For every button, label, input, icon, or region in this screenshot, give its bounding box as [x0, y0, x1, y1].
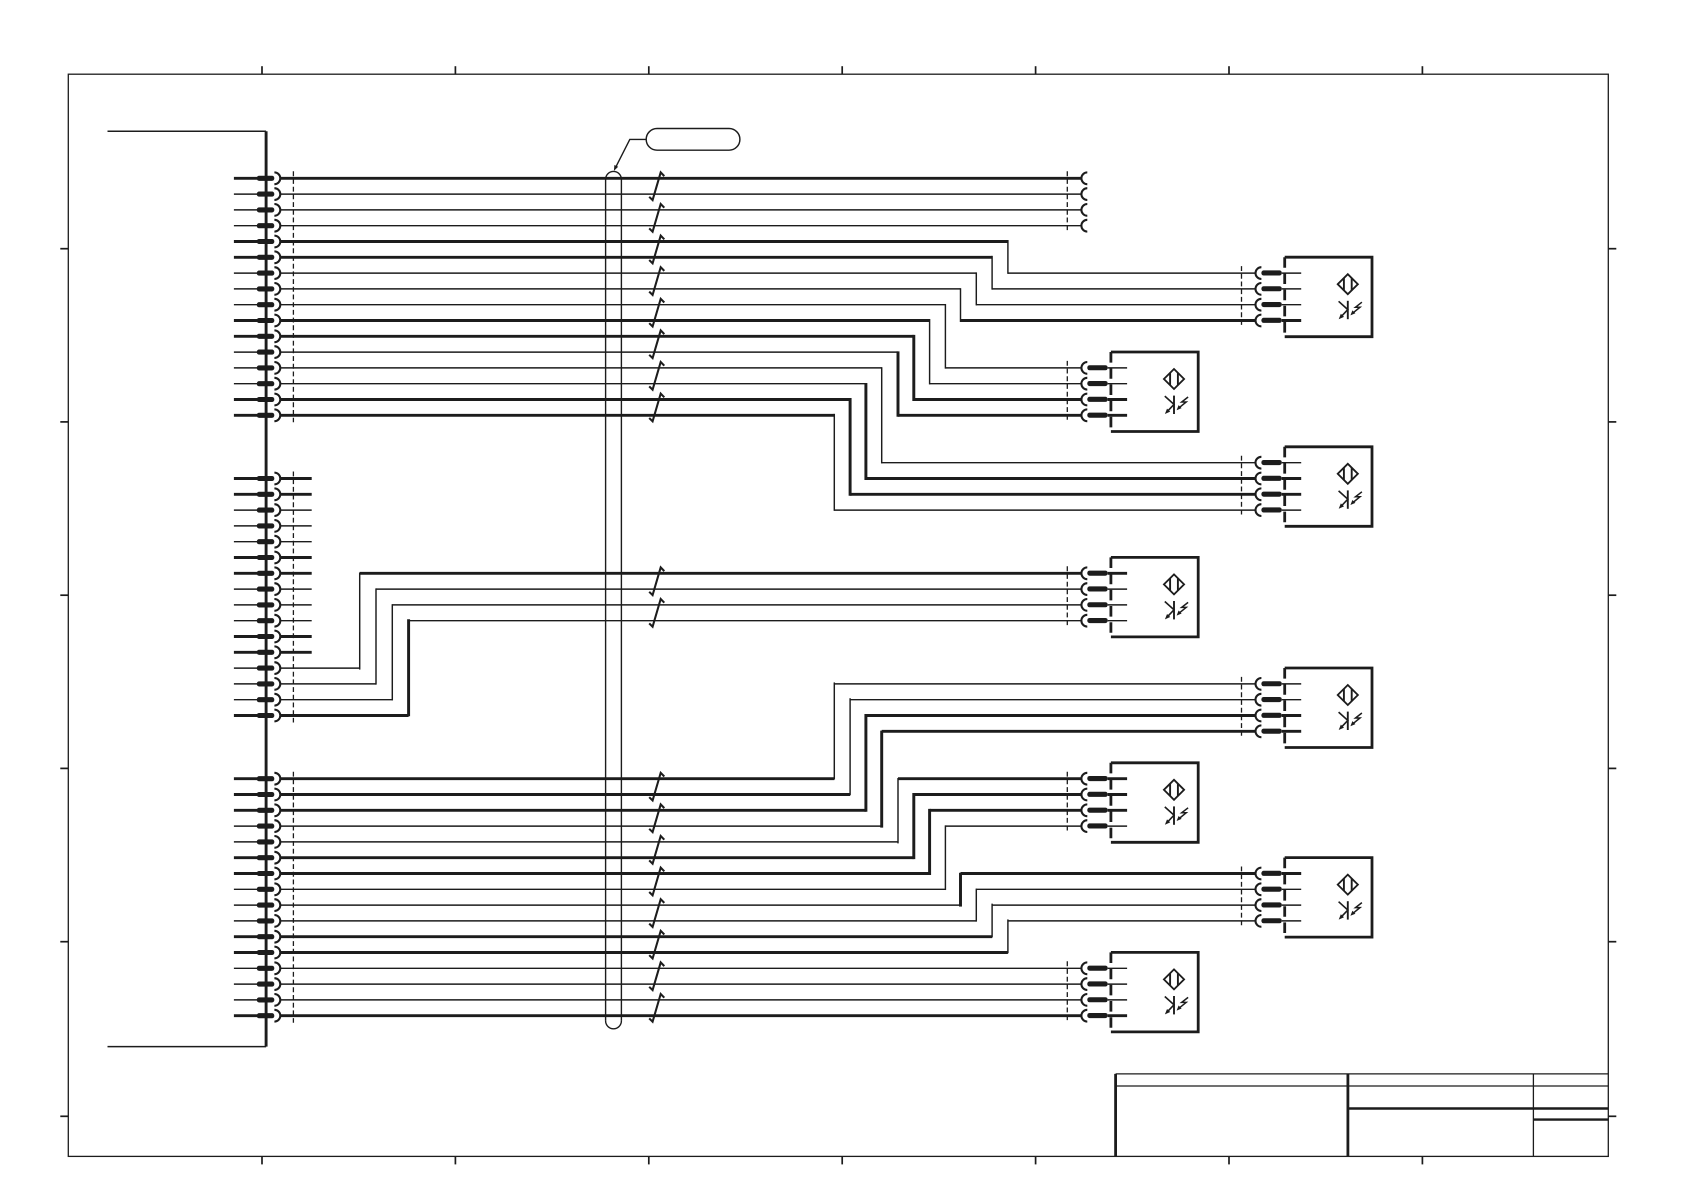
spare wire stub, pin X1.20 (not connected): [280, 525, 311, 527]
sensor B2 terminal 3 (socket, pad, lead): [1081, 394, 1127, 406]
sensor B5 terminal 3 (socket, pad, lead): [1256, 710, 1302, 722]
sensor B3 dashed wire-crossing line: [1241, 456, 1243, 517]
sensor B2 photoelectric proximity symbol (diamond): [1164, 369, 1184, 389]
sensor B7 enclosure box: [1285, 858, 1372, 938]
sensor B5 enclosure box: [1285, 668, 1372, 748]
pin X1.9: [234, 299, 280, 311]
sensor B3 enclosure box: [1285, 447, 1372, 527]
pin X1.4: [234, 220, 280, 232]
sensor B4 receiver / reflected light-beam symbol: [1165, 601, 1188, 619]
spare wire stub, pin X1.18 (not connected): [280, 493, 311, 496]
dashed wire-crossing line at open cores: [1066, 171, 1068, 232]
sensor B6 receiver / reflected light-beam symbol: [1165, 806, 1188, 824]
wire, pin X1 row to sensor B2 terminal 4: [280, 351, 1081, 416]
sensor B8 terminal 3 (socket, pad, lead): [1081, 994, 1127, 1006]
sensor B3 terminal 1 (socket, pad, lead): [1256, 457, 1302, 469]
wire, pin X1 row to sensor B6 terminal 4: [280, 825, 1081, 890]
sensor B7 terminal 3 (socket, pad, lead): [1256, 899, 1302, 911]
spare wire stub, pin X1.22 (not connected): [280, 556, 311, 559]
pin X1.41: [234, 899, 280, 911]
wire, pin X1 row to sensor B1 terminal 4: [280, 288, 1255, 322]
wire, pin X1 row to sensor B2 terminal 2: [280, 319, 1081, 384]
wire, pin X1 row to sensor B7 terminal 1: [280, 873, 1255, 907]
cable core-count slash (2 conductors), rows 43-44: [649, 836, 664, 864]
wire, pin X1 row to sensor B3 terminal 4: [280, 414, 1255, 511]
wire, pin X1.2 to open cable core 2: [280, 193, 1081, 195]
pin X1.40: [234, 883, 280, 895]
sensor B1 terminal 2 (socket, pad, lead): [1256, 283, 1302, 295]
sensor B7 photoelectric proximity symbol (diamond): [1338, 875, 1358, 895]
sensor B2 terminal 1 (socket, pad, lead): [1081, 362, 1127, 374]
pin X1.23: [234, 567, 280, 579]
cable core-count slash (2 conductors), rows 11-12: [649, 330, 664, 358]
cable core-count slash (2 conductors), rows 3-4: [649, 204, 664, 232]
wire, pin X1 row to sensor B4 terminal 1: [280, 573, 1081, 670]
wire, pin X1 row to sensor B4 terminal 3: [280, 604, 1081, 700]
pin X1.7: [234, 267, 280, 279]
sensor B6 terminal 4 (socket, pad, lead): [1081, 820, 1127, 832]
cable W1 trunk (drawn as flattened loop): [606, 171, 622, 1028]
open connector sockets of unterminated cores (rows 1-4): [1081, 172, 1087, 231]
sensor B1 terminal 4 (socket, pad, lead): [1256, 315, 1302, 327]
pin X1.27: [234, 631, 280, 643]
pin X1.15: [234, 394, 280, 406]
spare wire stub, pin X1.17 (not connected): [280, 477, 311, 480]
cable core-count slash (2 conductors), rows 45-46: [649, 868, 664, 896]
pin X1.11: [234, 330, 280, 342]
pin X1.35: [234, 804, 280, 816]
spare wire stub, pin X1.21 (not connected): [280, 541, 311, 543]
cable core-count slash (2 conductors), rows 53-54: [649, 994, 664, 1022]
wire, pin X1 row to sensor B5 terminal 4: [280, 731, 1255, 828]
wire, pin X1 row to sensor B3 terminal 2: [280, 383, 1255, 480]
sensor B3 terminal 2 (socket, pad, lead): [1256, 473, 1302, 485]
pin X1.25: [234, 599, 280, 611]
cable core-count slash (2 conductors), rows 9-10: [649, 299, 664, 327]
pin X1.18: [234, 488, 280, 500]
sensor B6 photoelectric proximity symbol (diamond): [1164, 780, 1184, 800]
sensor B6 terminal 3 (socket, pad, lead): [1081, 804, 1127, 816]
sensor B7 terminal 4 (socket, pad, lead): [1256, 915, 1302, 927]
wire, pin X1 row to sensor B8 terminal 1: [280, 967, 1081, 969]
spare wire stub, pin X1.23 (not connected): [280, 572, 311, 575]
sensor B8 receiver / reflected light-beam symbol: [1165, 996, 1188, 1014]
pin X1.47: [234, 994, 280, 1006]
pin X1.26: [234, 615, 280, 627]
connector X1 body outline: [108, 131, 267, 1046]
wire, pin X1 row to sensor B5 terminal 2: [280, 698, 1255, 795]
wire, pin X1 row to sensor B1 terminal 3: [280, 272, 1255, 305]
pin X1.33: [234, 773, 280, 785]
pin X1.39: [234, 868, 280, 880]
pin X1.24: [234, 583, 280, 595]
sensor B8 photoelectric proximity symbol (diamond): [1164, 969, 1184, 989]
pin X1.21: [234, 536, 280, 548]
wire, pin X1 row to sensor B5 terminal 3: [280, 714, 1255, 812]
wire, pin X1.1 to open cable core 1: [280, 177, 1081, 180]
pin X1.45: [234, 962, 280, 974]
sensor B1 photoelectric proximity symbol (diamond): [1338, 274, 1358, 294]
pin X1.32: [234, 710, 280, 722]
pin X1.8: [234, 283, 280, 295]
wire, pin X1 row to sensor B6 terminal 2: [280, 793, 1081, 859]
sensor B4 enclosure box: [1111, 557, 1198, 637]
sensor B3 terminal 3 (socket, pad, lead): [1256, 488, 1302, 500]
title block: [1116, 1074, 1609, 1157]
sensor B8 dashed wire-crossing line: [1066, 961, 1068, 1022]
sensor B2 enclosure box: [1111, 352, 1198, 432]
cable core-count slash (2 conductors), rows 5-6: [649, 236, 664, 264]
wire, pin X1 row to sensor B7 terminal 2: [280, 889, 1255, 922]
pin X1.29: [234, 662, 280, 674]
pin X1.20: [234, 520, 280, 532]
pin X1.2: [234, 188, 280, 200]
pin X1.36: [234, 820, 280, 832]
cable core-count slash (2 conductors), rows 51-52: [649, 962, 664, 990]
wire, pin X1 row to sensor B4 terminal 4: [280, 619, 1081, 716]
sensor B5 photoelectric proximity symbol (diamond): [1338, 685, 1358, 705]
spare wire stub, pin X1.26 (not connected): [280, 620, 311, 622]
sensor B6 terminal 2 (socket, pad, lead): [1081, 789, 1127, 801]
cable core-count slash (2 conductors), rows 15-16: [649, 394, 664, 422]
pin X1.10: [234, 315, 280, 327]
pin X1.43: [234, 931, 280, 943]
pin X1.17: [234, 473, 280, 485]
spare wire stub, pin X1.19 (not connected): [280, 509, 311, 511]
cable core-count slash (2 conductors), rows 47-48: [649, 899, 664, 927]
wire, pin X1 row to sensor B3 terminal 1: [280, 367, 1255, 463]
sensor B5 terminal 1 (socket, pad, lead): [1256, 678, 1302, 690]
sensor B6 terminal 1 (socket, pad, lead): [1081, 773, 1127, 785]
wire, pin X1 row to sensor B8 terminal 3: [280, 999, 1081, 1001]
spare wire stub, pin X1.27 (not connected): [280, 635, 311, 638]
sensor B5 dashed wire-crossing line: [1241, 677, 1243, 738]
connector X1 dashed mating boundary, block 1: [292, 171, 294, 422]
sensor B3 receiver / reflected light-beam symbol: [1339, 490, 1362, 508]
pin X1.44: [234, 947, 280, 959]
pin X1.3: [234, 204, 280, 216]
sensor B2 terminal 4 (socket, pad, lead): [1081, 409, 1127, 421]
connector X1 dashed mating boundary, block 3: [292, 772, 294, 1023]
sensor B8 terminal 1 (socket, pad, lead): [1081, 962, 1127, 974]
pin X1.16: [234, 409, 280, 421]
pin X1.12: [234, 346, 280, 358]
pin X1.13: [234, 362, 280, 374]
sensor B2 receiver / reflected light-beam symbol: [1165, 396, 1188, 414]
sensor B1 receiver / reflected light-beam symbol: [1339, 301, 1362, 319]
sensor B5 receiver / reflected light-beam symbol: [1339, 712, 1362, 730]
cable core-count slash (2 conductors), rows 49-50: [649, 931, 664, 959]
pin X1.38: [234, 852, 280, 864]
wire, pin X1 row to sensor B2 terminal 3: [280, 335, 1081, 401]
sensor B8 terminal 4 (socket, pad, lead): [1081, 1010, 1127, 1022]
sensor B7 receiver / reflected light-beam symbol: [1339, 901, 1362, 919]
sensor B4 photoelectric proximity symbol (diamond): [1164, 574, 1184, 594]
sensor B1 dashed wire-crossing line: [1241, 266, 1243, 327]
sensor B1 terminal 3 (socket, pad, lead): [1256, 299, 1302, 311]
pin X1.34: [234, 789, 280, 801]
cable core-count slash (2 conductors), rows 28-29: [649, 599, 664, 627]
pin X1.1: [234, 172, 280, 184]
sensor B4 terminal 4 (socket, pad, lead): [1081, 615, 1127, 627]
wire, pin X1 row to sensor B1 terminal 1: [280, 240, 1255, 274]
sensor B6 dashed wire-crossing line: [1066, 772, 1068, 833]
sensor B7 dashed wire-crossing line: [1241, 867, 1243, 928]
pin X1.5: [234, 236, 280, 248]
cable W1 designation label callout: [614, 129, 740, 171]
spare wire stub, pin X1.28 (not connected): [280, 651, 311, 654]
wire, pin X1 row to sensor B3 terminal 3: [280, 398, 1255, 496]
wire, pin X1 row to sensor B7 terminal 3: [280, 904, 1255, 938]
sensor B6 enclosure box: [1111, 763, 1198, 843]
sensor B3 photoelectric proximity symbol (diamond): [1338, 464, 1358, 484]
wire, pin X1.3 to open cable core 3: [280, 209, 1081, 211]
sensor B4 terminal 3 (socket, pad, lead): [1081, 599, 1127, 611]
sensor B1 terminal 1 (socket, pad, lead): [1256, 267, 1302, 279]
wire, pin X1 row to sensor B8 terminal 2: [280, 983, 1081, 985]
spare wire stub, pin X1.25 (not connected): [280, 604, 311, 606]
sensor B8 enclosure box: [1111, 952, 1198, 1032]
sensor B4 terminal 1 (socket, pad, lead): [1081, 567, 1127, 579]
sensor B8 terminal 2 (socket, pad, lead): [1081, 978, 1127, 990]
sensor B7 terminal 1 (socket, pad, lead): [1256, 868, 1302, 880]
pin X1.31: [234, 694, 280, 706]
sensor B2 dashed wire-crossing line: [1066, 361, 1068, 422]
sensor B7 terminal 2 (socket, pad, lead): [1256, 883, 1302, 895]
wire, pin X1 row to sensor B6 terminal 3: [280, 809, 1081, 875]
wire, pin X1 row to sensor B4 terminal 2: [280, 588, 1081, 684]
pin X1.48: [234, 1010, 280, 1022]
cable core-count slash (2 conductors), rows 1-2: [649, 172, 664, 200]
sensor B1 enclosure box: [1285, 257, 1372, 337]
wire, pin X1 row to sensor B1 terminal 2: [280, 256, 1255, 290]
cable core-count slash (2 conductors), rows 39-40: [649, 773, 664, 801]
spare wire stub, pin X1.24 (not connected): [280, 588, 311, 590]
sensor B3 terminal 4 (socket, pad, lead): [1256, 504, 1302, 516]
wire, pin X1 row to sensor B6 terminal 1: [280, 778, 1081, 843]
wire, pin X1 row to sensor B5 terminal 1: [280, 682, 1255, 779]
wire, pin X1 row to sensor B7 terminal 4: [280, 919, 1255, 953]
connector X1 dashed mating boundary, block 2: [292, 472, 294, 723]
sensor B4 dashed wire-crossing line: [1066, 566, 1068, 627]
pin X1.30: [234, 678, 280, 690]
sensor B4 terminal 2 (socket, pad, lead): [1081, 583, 1127, 595]
pin X1.6: [234, 251, 280, 263]
wire, pin X1 row to sensor B8 terminal 4: [280, 1014, 1081, 1017]
sensor B5 terminal 2 (socket, pad, lead): [1256, 694, 1302, 706]
sensor B5 terminal 4 (socket, pad, lead): [1256, 725, 1302, 737]
wire, pin X1 row to sensor B2 terminal 1: [280, 304, 1081, 369]
pin X1.28: [234, 646, 280, 658]
pin X1.22: [234, 552, 280, 564]
cable core-count slash (2 conductors), rows 41-42: [649, 804, 664, 832]
sensor B2 terminal 2 (socket, pad, lead): [1081, 378, 1127, 390]
pin X1.19: [234, 504, 280, 516]
pin X1.46: [234, 978, 280, 990]
wire, pin X1.4 to open cable core 4: [280, 225, 1081, 227]
pin X1.14: [234, 378, 280, 390]
cable core-count slash (2 conductors), rows 7-8: [649, 267, 664, 295]
pin X1.37: [234, 836, 280, 848]
cable core-count slash (2 conductors), rows 26-27: [649, 567, 664, 595]
cable core-count slash (2 conductors), rows 13-14: [649, 362, 664, 390]
pin X1.42: [234, 915, 280, 927]
